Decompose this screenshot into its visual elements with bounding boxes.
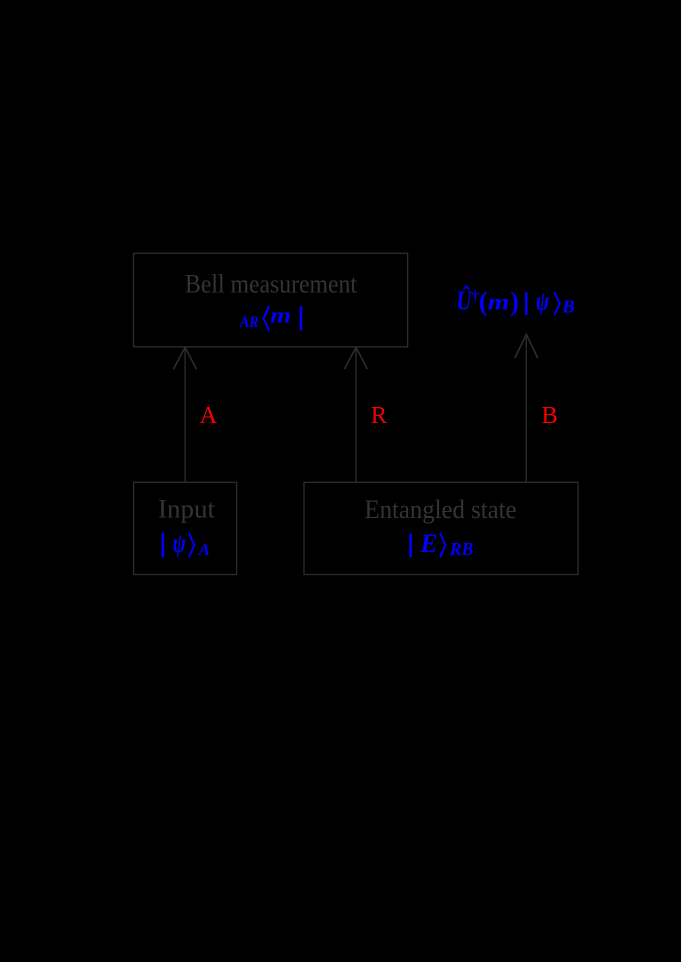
box U1 Bell measurement [134,253,408,346]
svg-text:ψ: ψ [536,287,550,316]
svg-text:m: m [488,290,510,316]
svg-text:Input: Input [158,495,216,524]
svg-text:RB: RB [449,539,474,559]
svg-text:Entangled state: Entangled state [365,495,517,524]
svg-text:ψ: ψ [173,529,187,558]
value label AR bra m [239,302,302,330]
wire arrow A shaft [184,349,186,482]
value label U dagger (m) ket psi B [457,285,575,317]
svg-text:AR: AR [239,314,259,331]
svg-text:A: A [198,540,210,559]
svg-text:R: R [371,402,388,429]
svg-text:Û: Û [457,285,474,316]
box Input [134,482,237,574]
wire arrow B head [515,334,538,358]
svg-text:B: B [561,297,575,317]
box Entangled state [304,482,578,574]
svg-text:m: m [270,302,291,327]
svg-text:A: A [200,402,218,429]
svg-text:E: E [420,529,438,558]
wire arrow B shaft [525,336,527,482]
wire arrow A head [174,347,197,369]
svg-text:Bell measurement: Bell measurement [185,270,358,299]
svg-text:B: B [542,402,558,429]
value label ket psi A [162,529,210,560]
svg-text:): ) [510,287,519,317]
svg-text:(: ( [479,287,488,317]
wire arrow R head [345,347,368,369]
wire arrow R shaft [355,349,357,482]
value label ket E RB [409,529,473,559]
